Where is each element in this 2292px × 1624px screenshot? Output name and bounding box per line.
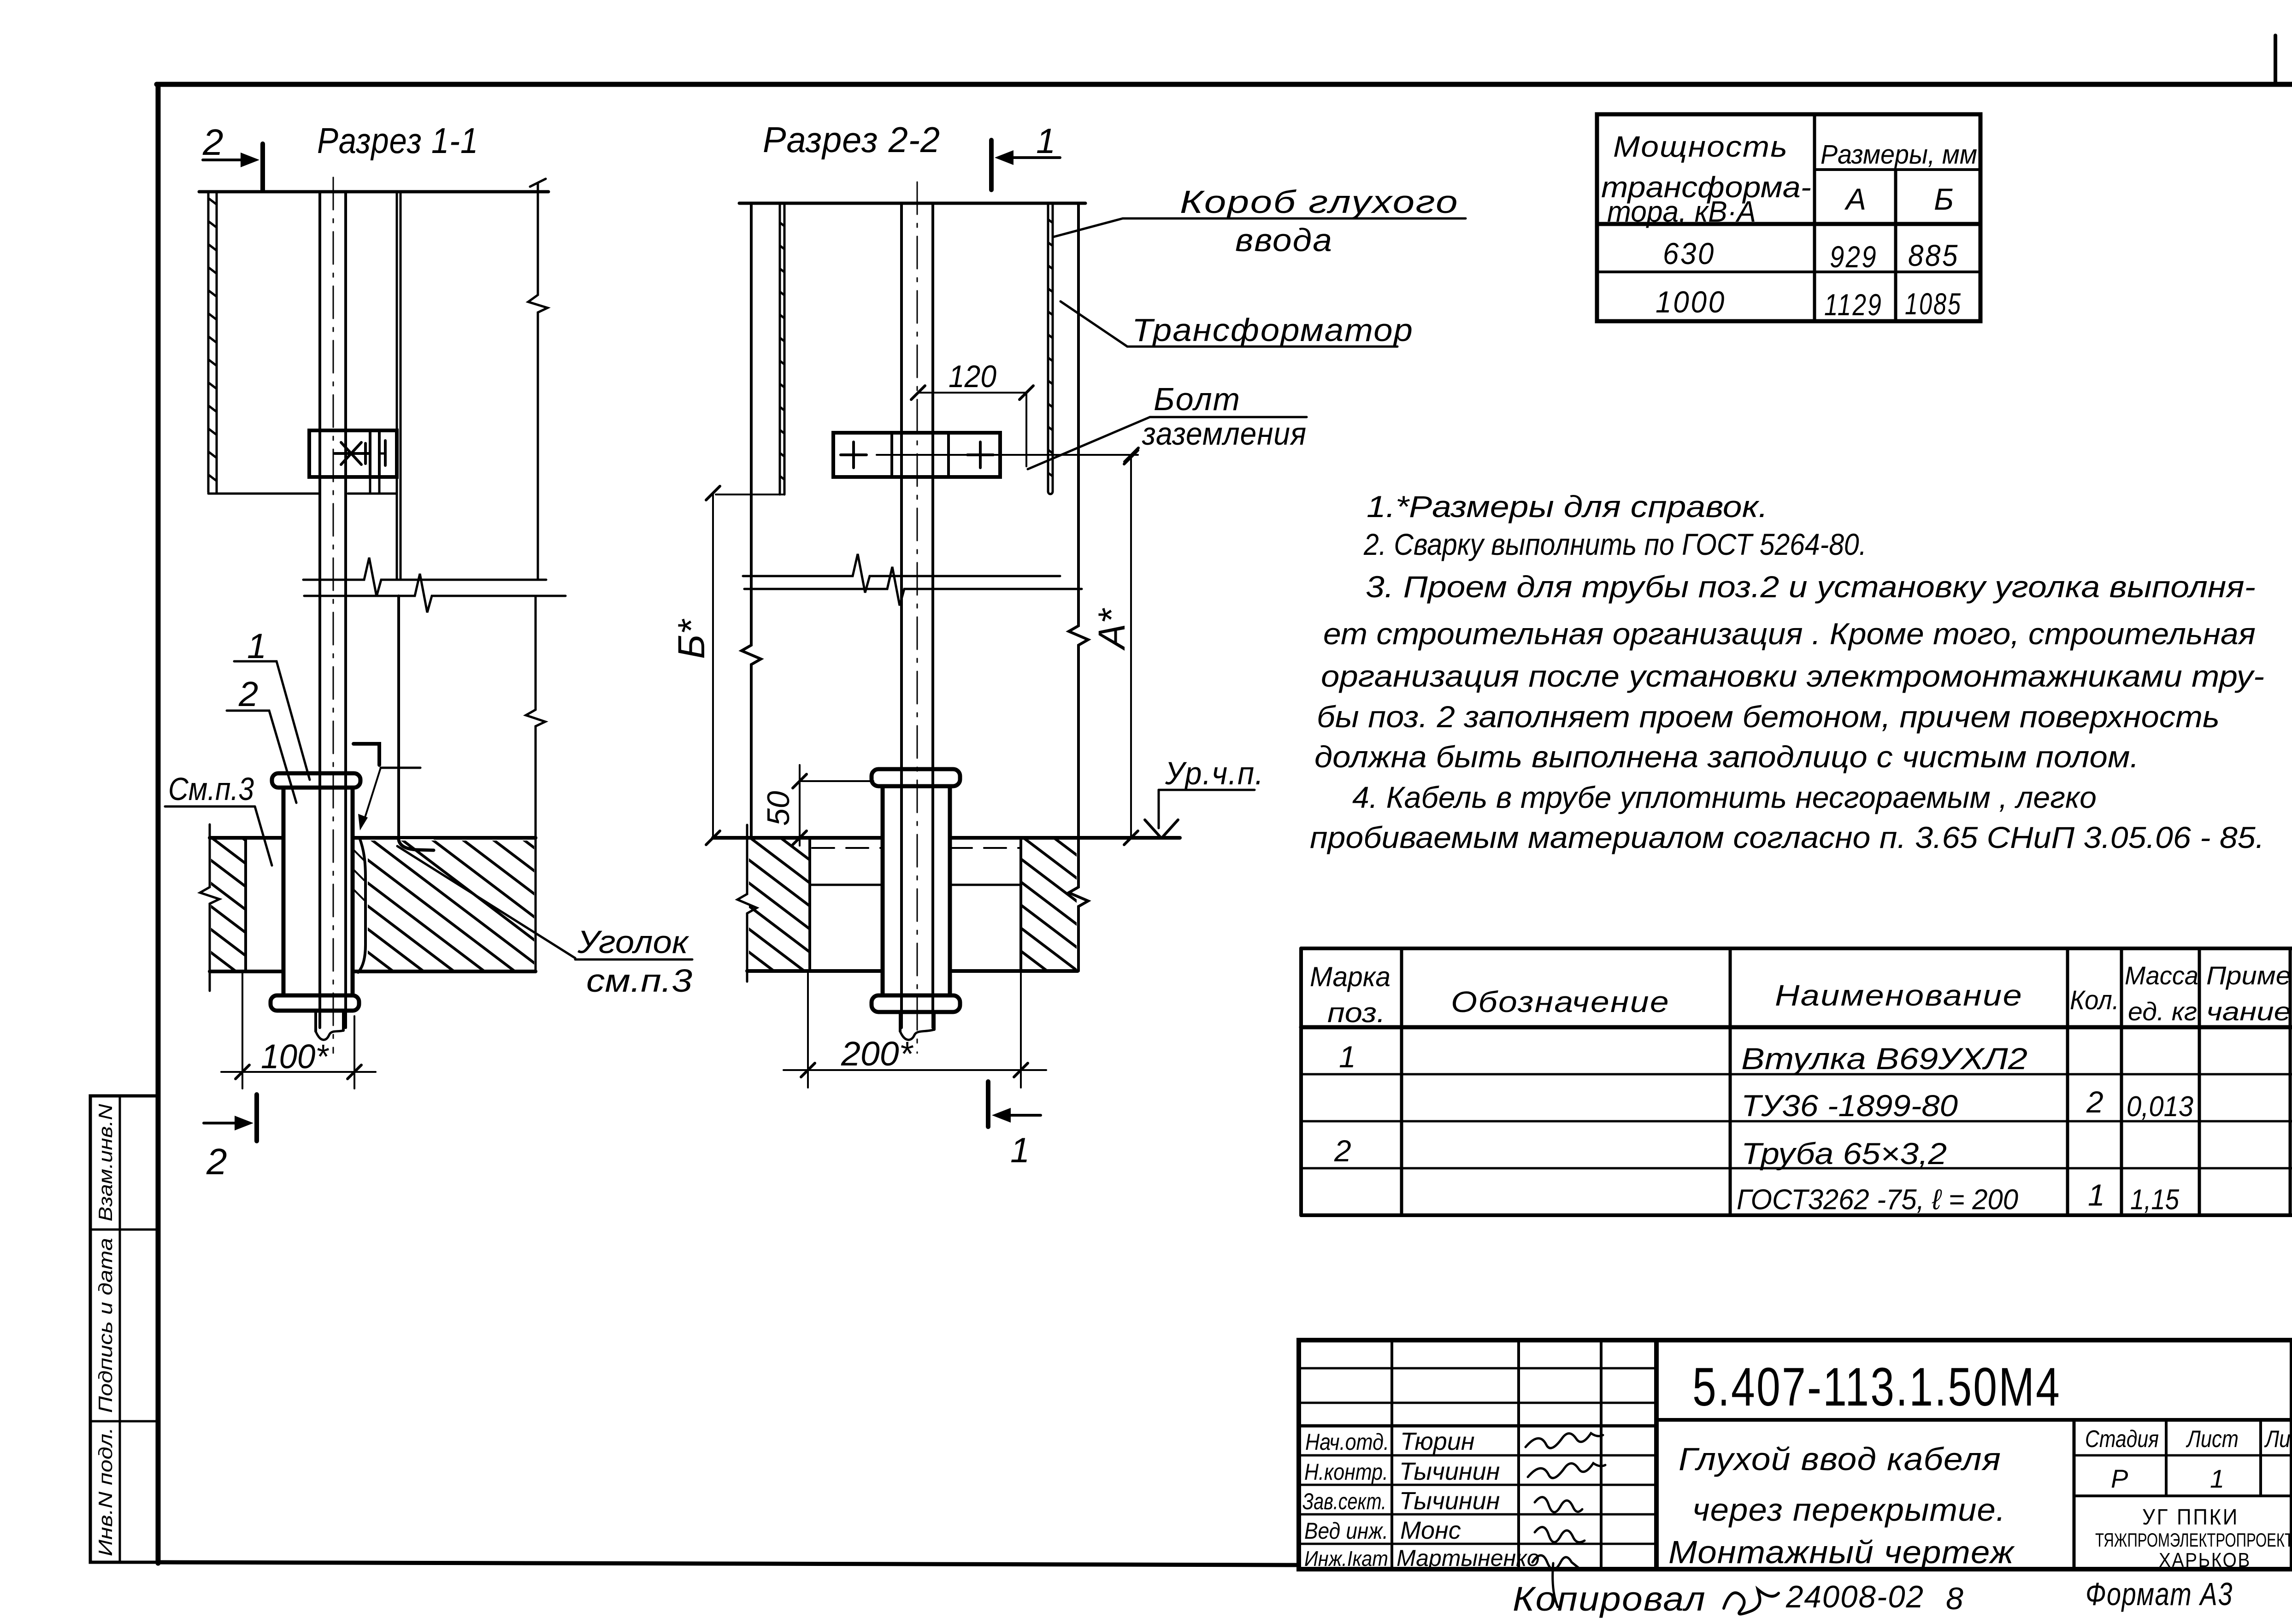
stage table header line (2074, 1454, 2292, 1457)
svg-text:2: 2 (1334, 1134, 1351, 1168)
svg-text:ет строительная организация: ет строительная организация . Кроме того… (1323, 617, 2256, 651)
ceiling line section 2-2 (739, 202, 1085, 205)
opening right flared edge (358, 838, 365, 972)
dim 100* line (221, 1071, 376, 1073)
spec table divider Кол/Масса (2120, 948, 2123, 1215)
svg-text:4. Кабель в трубе уплотнить: 4. Кабель в трубе уплотнить несгораемым … (1352, 780, 2097, 814)
bolt axis slash (1125, 448, 1138, 462)
bushing bottom flange (271, 995, 359, 1011)
svg-text:Подпись и дата: Подпись и дата (94, 1238, 116, 1413)
svg-text:ГОСТ3262 -75, ℓ = 200: ГОСТ3262 -75, ℓ = 200 (1737, 1184, 2018, 1216)
bolt block divider right (947, 433, 950, 477)
stage table vertical 3 (2259, 1420, 2262, 1496)
spec table right edge at sheet cut (2289, 948, 2292, 1215)
sheet frame bottom line (158, 1562, 1299, 1565)
duct right wall hatch 2-2 (626, 199, 1474, 496)
section mark 2 top: end bar (260, 144, 265, 190)
spec table divider Обозначение/Наименование (1729, 948, 1732, 1215)
title block name row line 4 (1299, 1543, 1656, 1545)
dim A* slash bottom (1124, 831, 1138, 845)
dim 120 line (918, 392, 1026, 394)
duct left wall hatch (0, 186, 634, 498)
duct left wall outer line (207, 192, 210, 492)
power table line under header (1597, 222, 1980, 226)
svg-text:Б: Б (1934, 182, 1954, 216)
svg-text:2. Сварку выполнить по ГОСТ: 2. Сварку выполнить по ГОСТ 5264-80. (1363, 527, 1867, 561)
bolt axis line (877, 454, 1138, 456)
cable right edge 2-2 (931, 203, 934, 1028)
duct bottom line right segment (348, 493, 397, 495)
clamp divider tails to duct bottom (369, 477, 371, 494)
svg-text:630: 630 (1663, 236, 1715, 271)
spec table top border (1301, 947, 2292, 950)
clamp block body (309, 430, 397, 477)
svg-text:ТУ36 -1899-80: ТУ36 -1899-80 (1741, 1089, 1958, 1123)
bolt block divider left (890, 433, 893, 477)
dim 100* slash right (348, 1065, 361, 1079)
wall line below break (397, 596, 400, 841)
cable right edge (344, 192, 347, 1028)
svg-text:Зав.сект.: Зав.сект. (1302, 1489, 1386, 1514)
title block top row line 1 (1299, 1367, 1656, 1370)
svg-text:Кол.: Кол. (2070, 985, 2119, 1015)
dim 200* line (784, 1069, 1046, 1071)
weld star symbol (341, 442, 361, 465)
title block outer border (1299, 1340, 2292, 1569)
section mark 2 bottom: arrow head (235, 1116, 253, 1130)
svg-text:Марка: Марка (1310, 961, 1391, 992)
label См.п.3 leader (255, 806, 272, 865)
bushing stub squiggle 2-2 (900, 1030, 934, 1040)
svg-text:Масса: Масса (2125, 961, 2198, 990)
svg-text:должна быть выполнена запод: должна быть выполнена заподлицо с чистым… (1314, 740, 2139, 774)
bushing body right wall 2-2 (948, 786, 952, 995)
duct right wall outer line 2-2 (1047, 203, 1049, 491)
duct right wall outer line (396, 192, 398, 580)
svg-text:Тычинин: Тычинин (1399, 1458, 1500, 1485)
svg-text:100*: 100* (261, 1037, 329, 1076)
label Уголок underline (575, 959, 692, 961)
spec table header bottom line (1301, 1025, 2292, 1030)
svg-text:Копировал: Копировал (1513, 1580, 1706, 1618)
duct bottom line left segment (208, 493, 319, 495)
power table divider power/sizes (1813, 114, 1816, 321)
svg-text:929: 929 (1830, 240, 1878, 274)
svg-text:ввода: ввода (1235, 222, 1333, 258)
stage table vertical 1 (2073, 1420, 2076, 1569)
sheet frame left line (156, 84, 161, 1563)
signature squiggle 5 (1532, 1555, 1579, 1607)
wall break top tick (530, 179, 546, 187)
svg-text:ед. кг: ед. кг (2128, 997, 2197, 1026)
section mark 2 bottom: end bar (254, 1094, 259, 1141)
hatch right slab 1-1 (153, 835, 733, 975)
svg-text:поз.: поз. (1327, 997, 1385, 1028)
spec table row line 3 (1301, 1167, 2292, 1170)
svg-text:Разрез 2-2: Разрез 2-2 (763, 119, 940, 160)
dim Б* extension top (716, 494, 784, 495)
section mark 1 top: arrow shaft (1007, 156, 1060, 159)
bushing stub left (314, 1011, 317, 1031)
hidden dashed edge right (950, 847, 1021, 849)
footer copier signature (1724, 1589, 1779, 1614)
svg-text:Формат А3: Формат А3 (2086, 1576, 2233, 1612)
title block main divider (1654, 1340, 1659, 1569)
stamp divider between Подпись и дата and Инв.N подл. (90, 1420, 157, 1423)
svg-text:ТЯЖПРОМЭЛЕКТРОПРОЕКТ: ТЯЖПРОМЭЛЕКТРОПРОЕКТ (2095, 1529, 2292, 1551)
dim 100* extension right (354, 1016, 355, 1089)
floor bottom left segment 2-2 (747, 969, 883, 973)
bushing body left wall (282, 788, 286, 995)
floor bottom right segment 2-2 (950, 969, 1078, 973)
SECTION-STAMPS (left margin) (90, 1096, 157, 1562)
bushing stub right (342, 1011, 345, 1030)
svg-text:Монс: Монс (1400, 1517, 1461, 1544)
spec table divider Марка/Обозначение (1400, 948, 1403, 1215)
spec table bottom border (1301, 1213, 2292, 1217)
title block name row line 1 (1299, 1454, 1656, 1457)
svg-text:1: 1 (1010, 1131, 1030, 1170)
bushing body right wall (351, 788, 355, 995)
dim 100* slash left (236, 1065, 249, 1079)
svg-text:Инв.N подл.: Инв.N подл. (94, 1427, 116, 1556)
svg-text:пробиваемым материалом согла: пробиваемым материалом согласно п. 3.65 … (1310, 820, 2264, 854)
svg-text:120: 120 (949, 359, 996, 394)
dim 200* extension left (807, 973, 809, 1088)
label Трансформатор leader (1061, 301, 1127, 347)
svg-text:Размеры, мм: Размеры, мм (1821, 140, 1977, 170)
svg-text:Тюрин: Тюрин (1400, 1428, 1475, 1455)
svg-text:Нач.отд.: Нач.отд. (1305, 1429, 1389, 1455)
cable centreline (333, 177, 334, 1053)
svg-text:0,013: 0,013 (2127, 1091, 2193, 1123)
power table divider A/Б (1894, 170, 1897, 321)
signature squiggle 1 (1526, 1433, 1603, 1448)
spec table divider Масса/Примечание (2198, 948, 2201, 1215)
svg-text:Приме: Приме (2206, 961, 2291, 990)
weld symbol corner bracket (354, 744, 379, 765)
opening step line left (810, 884, 883, 886)
svg-text:Тычинин: Тычинин (1399, 1487, 1500, 1515)
cable centreline 2-2 (917, 182, 918, 1053)
stage table values line (2074, 1495, 2292, 1497)
svg-text:Листов: Листов (2264, 1426, 2292, 1453)
svg-text:Разрез 1-1: Разрез 1-1 (317, 120, 478, 161)
dim 50 slash bottom (793, 831, 807, 845)
weld bell of angle (399, 839, 434, 850)
svg-text:Короб глухого: Короб глухого (1180, 184, 1459, 220)
dim 120 slash right (1019, 386, 1033, 400)
stamp divider between Взам.инв.N and Подпись и дата (90, 1229, 157, 1231)
svg-text:А: А (1844, 182, 1866, 216)
section mark 1 top: arrow head (995, 150, 1013, 165)
svg-text:Монтажный чертеж: Монтажный чертеж (1668, 1534, 2015, 1570)
svg-text:чание: чание (2206, 997, 2291, 1026)
spec table row line 2 (1301, 1120, 2292, 1123)
hidden dashed edge left (812, 847, 883, 849)
svg-text:2: 2 (2086, 1085, 2103, 1119)
svg-text:2: 2 (202, 122, 224, 163)
ceiling line section 1-1 (199, 190, 548, 194)
weld leader horizontal (381, 767, 420, 769)
svg-text:Вед инж.: Вед инж. (1304, 1518, 1388, 1544)
dim 50 extension (801, 780, 873, 782)
section mark 2 top: arrow head (241, 153, 259, 167)
svg-text:Трансформатор: Трансформатор (1132, 312, 1414, 348)
floor bottom left segment (210, 970, 283, 973)
duct left wall inner line 2-2 (784, 203, 786, 494)
duct left wall inner line (216, 192, 218, 492)
duct right wall rounded tip (1048, 491, 1053, 494)
svg-text:1085: 1085 (1905, 287, 1962, 321)
signature squiggle 2 (1528, 1463, 1605, 1478)
svg-text:А*: А* (1091, 607, 1133, 651)
title block name row line 2 (1299, 1484, 1656, 1486)
svg-text:1: 1 (1036, 122, 1055, 161)
svg-text:1: 1 (1339, 1040, 1356, 1074)
svg-text:3. Проем для трубы поз.2 и: 3. Проем для трубы поз.2 и установку уго… (1366, 570, 2256, 604)
dim Б* slash top (706, 486, 720, 500)
svg-text:1: 1 (2088, 1178, 2105, 1212)
bushing stub 2-2 (899, 1012, 901, 1031)
svg-text:2: 2 (206, 1141, 227, 1182)
svg-text:См.п.3: См.п.3 (168, 771, 254, 807)
mid break line lower 2-2 (744, 567, 1082, 606)
svg-text:организация после установки: организация после установки электромонта… (1321, 659, 2264, 693)
opening left edge (244, 838, 247, 971)
title block vertical: signatures/dates (1600, 1340, 1603, 1569)
clamp divider right (378, 430, 381, 477)
title block top row line 3 (1299, 1424, 1656, 1428)
power table line under Размеры,мм (1815, 168, 1980, 171)
spec table divider Наименование/Кол (2066, 948, 2069, 1215)
bushing bottom flange 2-2 (872, 995, 960, 1012)
svg-text:Лист: Лист (2186, 1426, 2239, 1453)
dim A* line (1130, 457, 1132, 838)
position leader 1 (234, 661, 310, 780)
label См.п.3 underline (165, 806, 255, 808)
svg-text:тора, кВ·А: тора, кВ·А (1607, 195, 1756, 228)
svg-text:бы поз. 2 заполняет проем: бы поз. 2 заполняет проем бетоном, приче… (1317, 700, 2220, 734)
hatch left slab 1-1 (0, 834, 454, 976)
svg-text:Б*: Б* (671, 618, 713, 659)
svg-text:Глухой ввод кабеля: Глухой ввод кабеля (1679, 1441, 2001, 1477)
label Трансформатор underline (1127, 346, 1397, 348)
svg-text:8: 8 (1946, 1581, 1963, 1616)
label Ур.ч.п. underline (1159, 789, 1255, 791)
svg-text:УГ ППКИ: УГ ППКИ (2142, 1505, 2239, 1530)
section mark 1 bottom: arrow shaft (1005, 1114, 1041, 1117)
svg-text:885: 885 (1908, 238, 1959, 272)
duct right wall inner line 2-2 (1052, 203, 1054, 491)
svg-text:Наименование: Наименование (1775, 979, 2023, 1012)
label Короб underline (1123, 218, 1466, 220)
cable left edge 2-2 (900, 203, 903, 1028)
svg-text:Болт: Болт (1154, 381, 1241, 417)
svg-text:Труба 65×3,2: Труба 65×3,2 (1741, 1136, 1947, 1171)
duct left wall hatch 2-2 (354, 199, 1206, 499)
dim Б* line (712, 493, 714, 838)
svg-text:Мощность: Мощность (1613, 130, 1788, 163)
svg-text:5.407-113.1.50М4: 5.407-113.1.50М4 (1692, 1357, 2061, 1418)
bushing body left wall 2-2 (881, 786, 885, 995)
weld leader arrow head (358, 814, 368, 830)
svg-text:через перекрытие.: через перекрытие. (1692, 1492, 2006, 1528)
svg-text:1: 1 (2210, 1464, 2224, 1493)
label Уголок leader (397, 846, 575, 958)
dim 120 slash left (911, 386, 925, 400)
signature squiggle 3 (1535, 1497, 1582, 1512)
svg-text:Инж.Iкат: Инж.Iкат (1304, 1547, 1388, 1571)
dim 120 extension (1025, 393, 1027, 466)
svg-text:Н.контр.: Н.контр. (1304, 1459, 1388, 1485)
floor level arrow left stroke (1145, 820, 1161, 838)
cable left edge (318, 192, 321, 1028)
svg-text:Мартыненко: Мартыненко (1396, 1545, 1540, 1571)
hatch left slab 2-2 (532, 834, 1023, 975)
bushing stub break squiggle (316, 1030, 343, 1040)
clamp divider left (369, 430, 371, 477)
weld seam ticks (354, 850, 364, 860)
stamp column outer box (90, 1096, 157, 1562)
svg-text:1: 1 (247, 627, 266, 666)
bushing top flange (272, 773, 360, 788)
title block vertical: fams/signatures (1517, 1340, 1520, 1569)
svg-text:Втулка В69УХЛ2: Втулка В69УХЛ2 (1741, 1041, 2027, 1076)
spec table row line 1 (1301, 1073, 2292, 1076)
dim 200* extension right (1020, 973, 1022, 1088)
bolt cross left (841, 453, 866, 456)
mid break line upper (303, 558, 546, 596)
section mark 1 bottom: arrow head (992, 1108, 1011, 1123)
dim 100* extension left (242, 973, 243, 1089)
floor top left segment (210, 836, 283, 840)
section mark 2 top: arrow shaft (203, 159, 249, 161)
floor top left segment 2-2 (713, 836, 883, 840)
mid break line upper 2-2 (743, 554, 1060, 593)
svg-text:Ур.ч.п.: Ур.ч.п. (1165, 755, 1264, 791)
clamp bolt symbol H (384, 441, 387, 465)
fold mark top right (2274, 35, 2277, 84)
svg-text:Р: Р (2111, 1464, 2128, 1493)
weld leader diagonal (363, 768, 381, 823)
duct left wall outer line 2-2 (779, 203, 781, 494)
doc number underline (1656, 1418, 2292, 1422)
svg-text:Стадия: Стадия (2085, 1426, 2159, 1453)
label Болт leader (1028, 417, 1150, 469)
bushing top flange 2-2 (872, 769, 960, 786)
dim 50 slash top (793, 774, 807, 788)
svg-text:50: 50 (761, 791, 796, 826)
svg-text:1.*Размеры для справок.: 1.*Размеры для справок. (1367, 489, 1768, 524)
earthing bolt block (833, 433, 1000, 477)
svg-text:1,15: 1,15 (2130, 1184, 2179, 1216)
svg-text:Уголок: Уголок (577, 924, 689, 960)
dim 200* slash left (801, 1063, 815, 1077)
svg-text:ХАРЬКОВ: ХАРЬКОВ (2159, 1549, 2251, 1571)
bolt cross right (967, 453, 993, 456)
duct right wall inner line (400, 192, 402, 580)
section mark 1 top: end bar (989, 140, 994, 190)
label Ур.ч.п. drop line (1158, 790, 1160, 828)
svg-text:Обозначение: Обозначение (1451, 985, 1670, 1018)
title block top row line 2 (1299, 1402, 1656, 1404)
dim A* slash top (1124, 450, 1138, 464)
cell right outer wall with breaks (1069, 203, 1088, 971)
svg-text:см.п.3: см.п.3 (586, 963, 692, 999)
floor top right segment (353, 836, 536, 840)
signature squiggle 4 (1535, 1527, 1585, 1542)
dim 50 line (799, 765, 801, 846)
hatch right slab 2-2 (806, 834, 1266, 975)
svg-text:Взам.инв.N: Взам.инв.N (94, 1104, 116, 1222)
stamp column inner vertical divider (119, 1096, 121, 1562)
floor top right segment 2-2 (950, 836, 1180, 840)
opening left edge 2-2 (808, 838, 811, 971)
svg-text:1129: 1129 (1824, 288, 1883, 322)
svg-text:24008-02: 24008-02 (1785, 1579, 1924, 1614)
svg-text:1000: 1000 (1656, 285, 1726, 319)
dim Б* slash bottom (706, 831, 720, 845)
cell left outer wall with break (742, 203, 761, 838)
svg-text:200*: 200* (841, 1035, 913, 1073)
spec table left border (1299, 948, 1303, 1215)
section mark 1 bottom: end bar (986, 1082, 990, 1127)
section mark 2 bottom: arrow shaft (204, 1122, 243, 1124)
dim 200* slash right (1014, 1063, 1028, 1077)
floor level arrow right stroke (1161, 820, 1178, 838)
sheet frame top line (157, 82, 2292, 87)
stage table vertical 2 (2165, 1420, 2168, 1496)
mid break line lower (304, 574, 566, 612)
title block vertical: names/fams (1391, 1340, 1393, 1569)
opening step line right (950, 884, 1021, 886)
opening right edge 2-2 (1019, 838, 1022, 971)
svg-text:заземления: заземления (1142, 416, 1307, 452)
power table outer border (1597, 114, 1980, 321)
floor bottom right segment (353, 970, 536, 973)
label Короб leader (1054, 218, 1123, 237)
slab break edge left 2-2 (737, 825, 757, 982)
wall break line right lower (526, 596, 545, 971)
title block name row line 3 (1299, 1513, 1656, 1516)
slab break edge left (200, 824, 219, 991)
power table line between rows (1597, 271, 1980, 273)
wall break line right upper (528, 183, 548, 580)
label Болт underline (1150, 416, 1307, 418)
position leader 2 (227, 711, 296, 803)
svg-text:2: 2 (238, 675, 258, 714)
